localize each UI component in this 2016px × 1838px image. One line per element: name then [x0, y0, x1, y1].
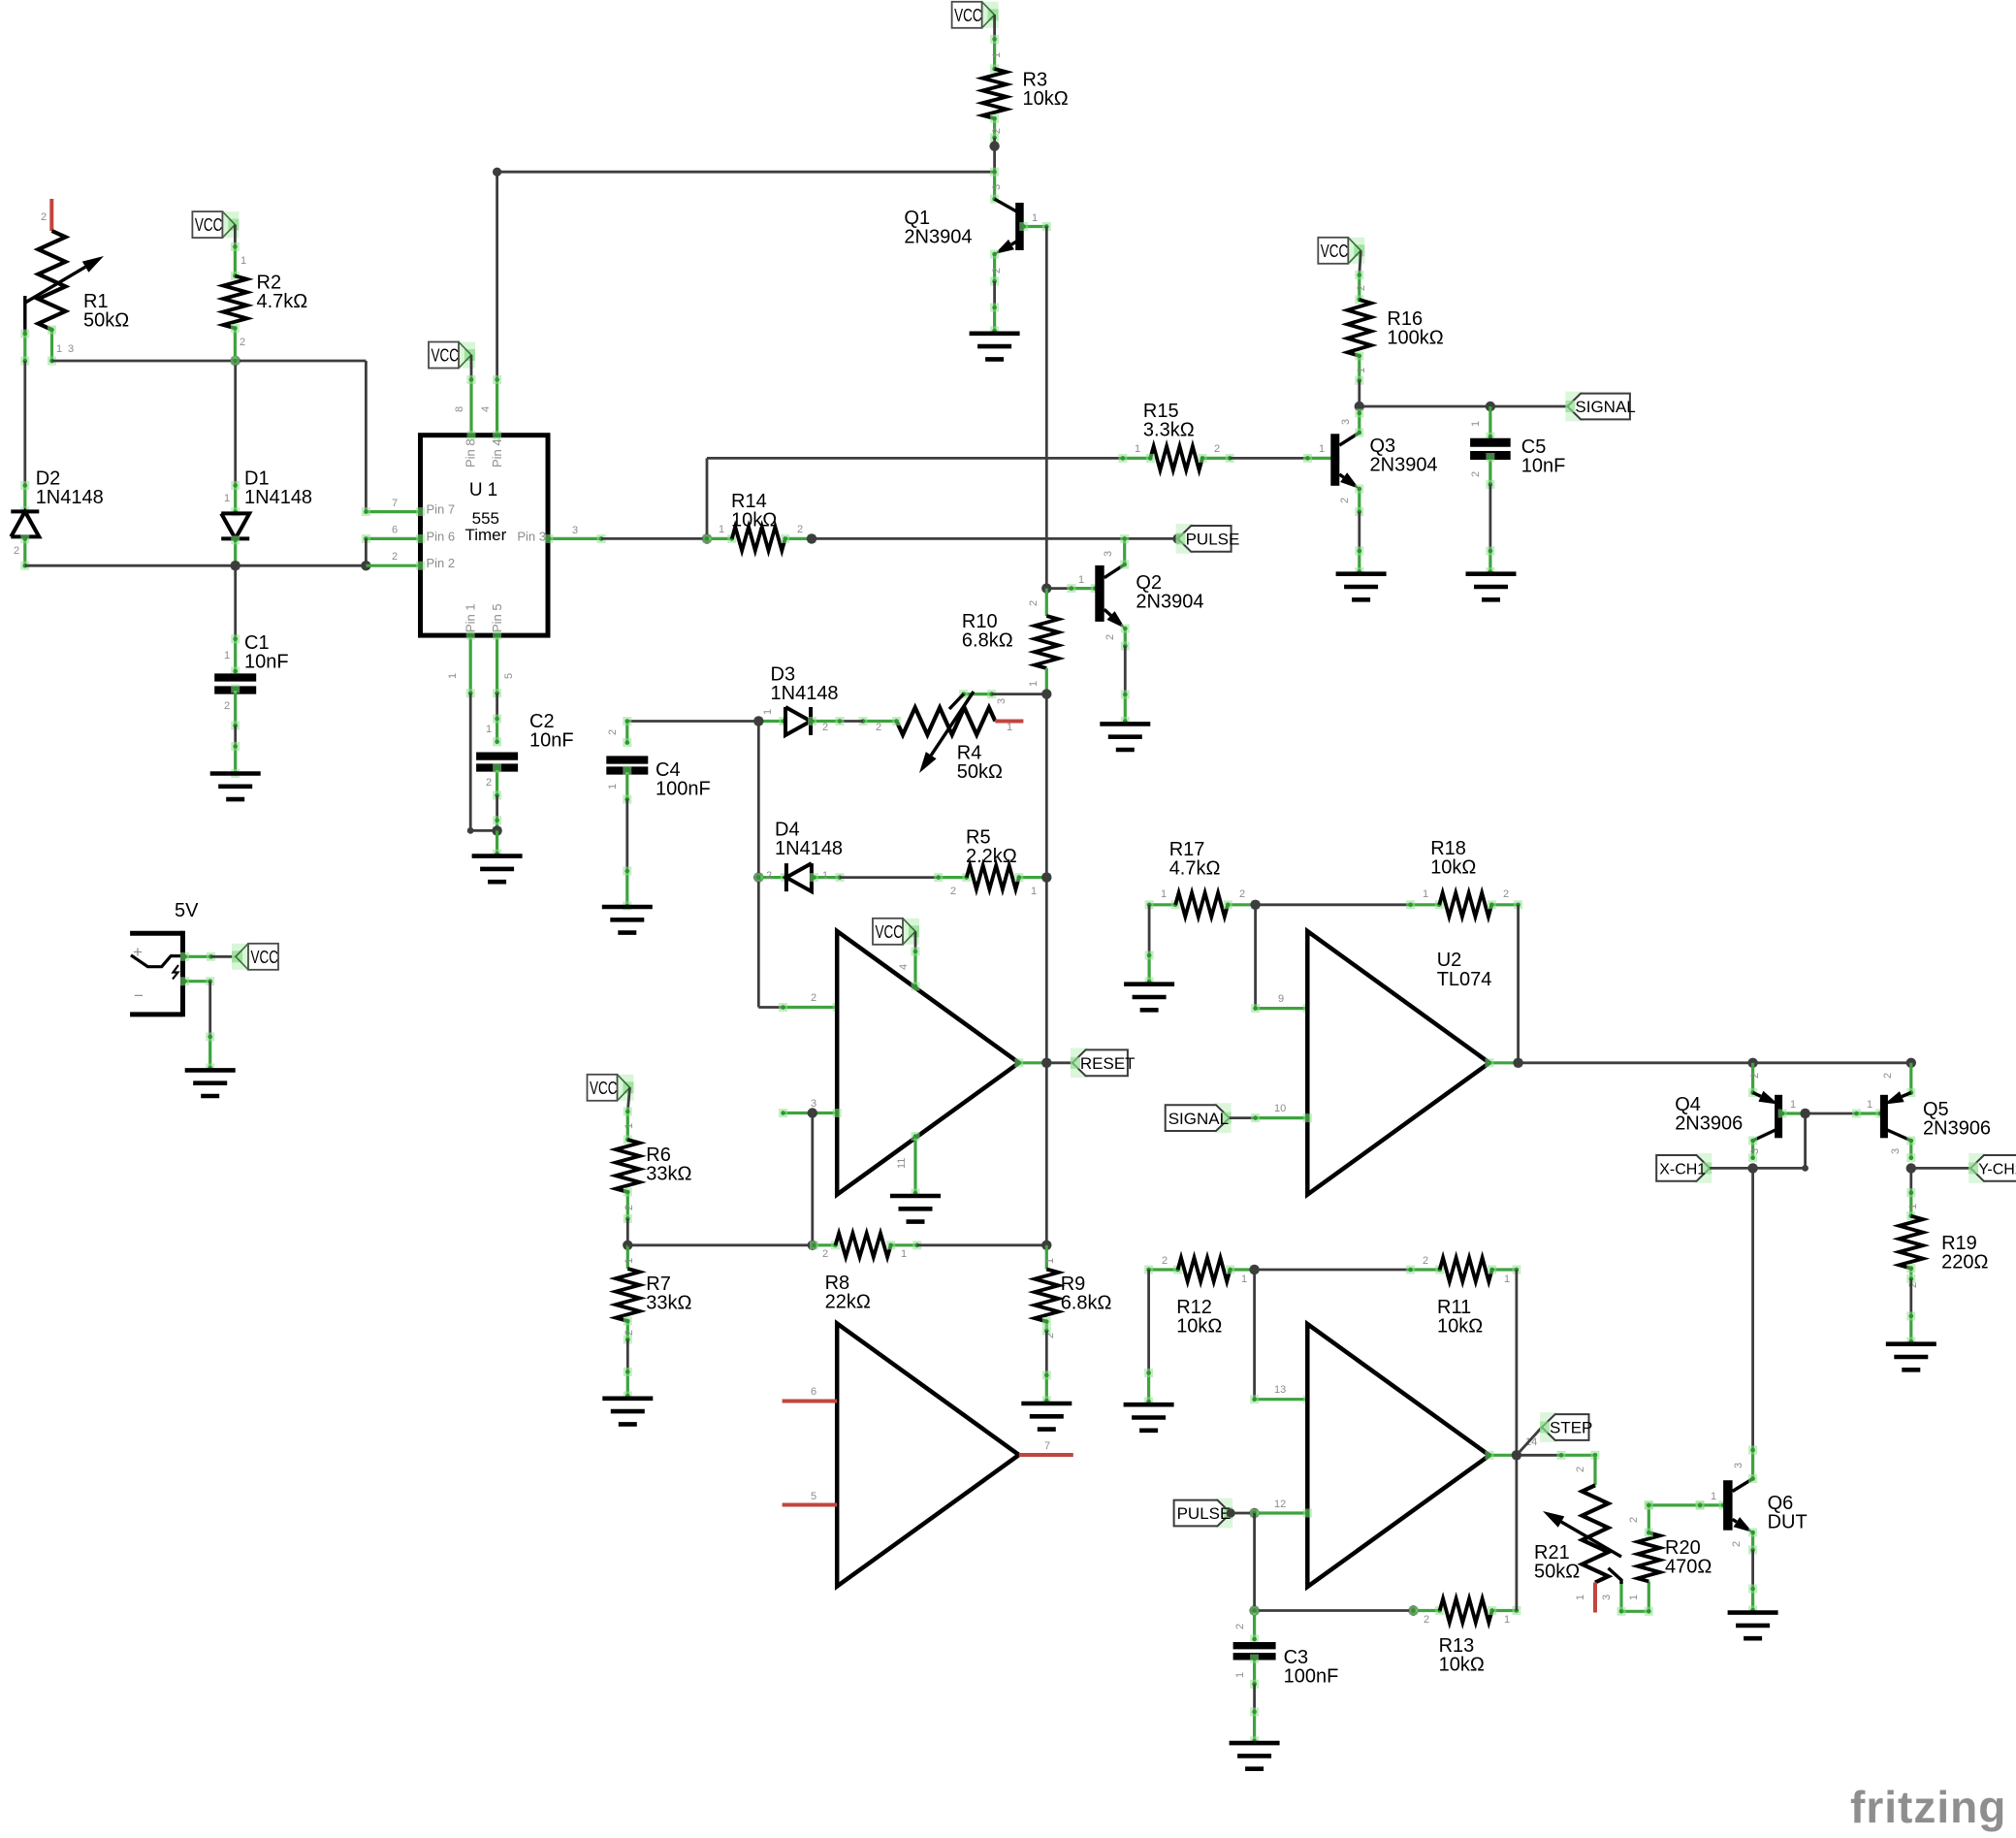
svg-text:1: 1 [1790, 1099, 1796, 1111]
svg-text:2: 2 [766, 870, 772, 882]
svg-text:1: 1 [719, 524, 724, 535]
svg-text:U2: U2 [1437, 950, 1462, 971]
svg-text:1: 1 [1907, 1204, 1919, 1209]
svg-text:Pin 2: Pin 2 [427, 556, 456, 570]
svg-text:TL074: TL074 [1437, 969, 1492, 990]
svg-text:1N4148: 1N4148 [775, 838, 843, 859]
svg-text:1: 1 [1234, 1672, 1246, 1678]
svg-text:470Ω: 470Ω [1665, 1557, 1712, 1578]
svg-text:2: 2 [1339, 498, 1351, 503]
svg-text:Pin 6: Pin 6 [427, 529, 456, 543]
svg-text:1: 1 [1031, 886, 1037, 897]
svg-text:12: 12 [1274, 1499, 1286, 1510]
svg-text:Y-CH2: Y-CH2 [1978, 1162, 2016, 1178]
svg-text:5V: 5V [175, 900, 199, 921]
svg-text:2: 2 [797, 524, 803, 535]
svg-text:2: 2 [1731, 1541, 1743, 1547]
svg-text:100nF: 100nF [1284, 1666, 1339, 1688]
svg-text:1: 1 [1628, 1595, 1640, 1600]
svg-text:10kΩ: 10kΩ [1023, 88, 1069, 110]
svg-text:2: 2 [1907, 1282, 1919, 1288]
svg-text:1N4148: 1N4148 [244, 487, 312, 508]
svg-text:1: 1 [1711, 1491, 1716, 1502]
svg-text:10kΩ: 10kΩ [731, 510, 777, 532]
svg-text:220Ω: 220Ω [1941, 1252, 1988, 1274]
svg-text:6: 6 [392, 525, 398, 536]
svg-text:2: 2 [1162, 1255, 1168, 1267]
svg-text:13: 13 [1274, 1384, 1286, 1396]
svg-text:SIGNAL: SIGNAL [1575, 398, 1635, 416]
svg-text:3: 3 [1733, 1463, 1744, 1468]
svg-text:VCC: VCC [432, 345, 460, 366]
svg-text:1: 1 [624, 1258, 635, 1264]
svg-text:RESET: RESET [1080, 1054, 1136, 1073]
svg-text:1: 1 [1241, 1274, 1247, 1285]
svg-text:3: 3 [572, 525, 578, 536]
svg-text:2: 2 [624, 1330, 635, 1336]
svg-text:2: 2 [950, 886, 956, 897]
svg-text:7: 7 [392, 498, 398, 509]
svg-text:2: 2 [1882, 1073, 1894, 1079]
svg-text:10: 10 [1274, 1103, 1286, 1114]
svg-text:2: 2 [991, 128, 1003, 134]
svg-text:1: 1 [1423, 888, 1428, 900]
svg-text:1: 1 [56, 343, 62, 355]
svg-text:STEP: STEP [1550, 1419, 1592, 1437]
svg-text:1: 1 [1575, 1595, 1586, 1600]
svg-text:3: 3 [1890, 1148, 1902, 1154]
svg-text:2: 2 [1104, 634, 1116, 640]
svg-text:1: 1 [1028, 681, 1040, 687]
svg-text:100nF: 100nF [656, 779, 711, 800]
svg-text:Pin 7: Pin 7 [427, 502, 456, 517]
svg-text:1: 1 [1007, 722, 1012, 733]
svg-text:1: 1 [991, 52, 1003, 58]
svg-text:VCC: VCC [251, 947, 279, 967]
svg-text:2.2kΩ: 2.2kΩ [966, 846, 1017, 867]
svg-text:2: 2 [1423, 1255, 1428, 1267]
svg-text:1: 1 [1470, 421, 1482, 427]
svg-text:3: 3 [1103, 551, 1114, 557]
svg-text:Pin 4: Pin 4 [490, 438, 504, 468]
svg-text:2: 2 [1028, 600, 1040, 606]
svg-text:PULSE: PULSE [1186, 531, 1240, 549]
svg-text:1: 1 [1135, 443, 1140, 455]
svg-text:2: 2 [240, 337, 245, 348]
svg-text:1: 1 [240, 255, 246, 267]
svg-text:1: 1 [447, 673, 459, 679]
svg-text:50kΩ: 50kΩ [957, 761, 1003, 783]
svg-text:2: 2 [1239, 888, 1245, 900]
svg-text:1: 1 [1044, 1258, 1056, 1264]
svg-text:22kΩ: 22kΩ [825, 1292, 871, 1313]
svg-text:11: 11 [896, 1158, 908, 1169]
svg-text:10kΩ: 10kΩ [1437, 1316, 1483, 1338]
svg-text:VCC: VCC [195, 214, 223, 235]
svg-text:2N3906: 2N3906 [1923, 1118, 1991, 1140]
svg-text:10kΩ: 10kΩ [1430, 857, 1476, 879]
svg-text:8: 8 [454, 406, 465, 412]
svg-text:6.8kΩ: 6.8kΩ [962, 630, 1013, 652]
svg-text:2: 2 [224, 700, 230, 712]
svg-text:7: 7 [1044, 1440, 1050, 1452]
svg-text:1: 1 [224, 650, 230, 661]
svg-text:6.8kΩ: 6.8kΩ [1061, 1293, 1112, 1314]
svg-text:1: 1 [1032, 212, 1038, 224]
svg-text:2: 2 [991, 268, 1003, 274]
svg-text:10kΩ: 10kΩ [1176, 1316, 1222, 1338]
svg-text:1: 1 [1319, 443, 1325, 455]
svg-text:2: 2 [1424, 1614, 1429, 1626]
svg-text:2: 2 [392, 551, 398, 563]
svg-text:2: 2 [486, 777, 492, 789]
svg-text:Timer: Timer [464, 526, 506, 544]
svg-text:1: 1 [1504, 1614, 1510, 1626]
svg-text:2: 2 [822, 1248, 828, 1260]
svg-text:VCC: VCC [590, 1078, 618, 1098]
svg-text:3: 3 [996, 698, 1008, 704]
svg-text:3: 3 [68, 343, 74, 355]
svg-text:Pin 3: Pin 3 [517, 530, 546, 544]
svg-text:5: 5 [503, 673, 515, 679]
svg-text:1: 1 [1356, 368, 1367, 373]
svg-text:10nF: 10nF [529, 730, 574, 752]
svg-text:2: 2 [607, 729, 619, 735]
svg-text:10kΩ: 10kΩ [1439, 1655, 1485, 1676]
svg-text:1: 1 [1504, 1274, 1510, 1285]
svg-text:DUT: DUT [1768, 1512, 1808, 1533]
svg-text:3: 3 [1340, 419, 1352, 425]
svg-text:2N3904: 2N3904 [904, 227, 972, 248]
svg-text:1N4148: 1N4148 [771, 683, 839, 704]
svg-text:10nF: 10nF [244, 652, 289, 673]
svg-text:2: 2 [1749, 1073, 1761, 1079]
svg-text:33kΩ: 33kΩ [646, 1164, 691, 1185]
svg-text:3: 3 [991, 184, 1003, 190]
svg-text:4: 4 [480, 406, 492, 412]
svg-text:2: 2 [1356, 285, 1367, 291]
svg-text:4.7kΩ: 4.7kΩ [257, 291, 308, 312]
svg-text:2: 2 [1503, 888, 1509, 900]
svg-text:2N3904: 2N3904 [1136, 592, 1203, 613]
svg-text:1: 1 [607, 784, 619, 790]
svg-text:1: 1 [1161, 888, 1167, 900]
svg-text:100kΩ: 100kΩ [1387, 328, 1443, 349]
svg-text:2: 2 [811, 992, 816, 1004]
svg-text:50kΩ: 50kΩ [83, 309, 129, 331]
svg-text:4.7kΩ: 4.7kΩ [1169, 858, 1221, 880]
svg-text:VCC: VCC [954, 5, 982, 25]
svg-text:1: 1 [762, 709, 774, 715]
svg-text:2: 2 [41, 211, 47, 223]
svg-text:PULSE: PULSE [1177, 1504, 1232, 1523]
svg-text:−: − [134, 986, 144, 1005]
svg-text:1N4148: 1N4148 [36, 487, 104, 508]
svg-text:10nF: 10nF [1521, 456, 1566, 477]
svg-text:1: 1 [224, 493, 230, 504]
svg-text:1: 1 [624, 1123, 635, 1129]
svg-text:1: 1 [1867, 1099, 1872, 1111]
svg-text:3: 3 [811, 1098, 816, 1110]
svg-text:2: 2 [1234, 1624, 1246, 1629]
svg-text:Pin 8: Pin 8 [464, 438, 478, 468]
svg-text:1: 1 [1078, 574, 1084, 586]
svg-text:4: 4 [898, 964, 910, 970]
svg-text:2: 2 [822, 722, 828, 733]
svg-text:2: 2 [624, 1205, 635, 1210]
svg-text:2N3904: 2N3904 [1370, 455, 1438, 476]
svg-text:2: 2 [14, 545, 19, 557]
svg-text:Pin 5: Pin 5 [490, 603, 504, 632]
svg-text:VCC: VCC [1321, 241, 1349, 261]
svg-text:1: 1 [486, 724, 492, 735]
svg-text:2: 2 [1575, 1467, 1586, 1472]
svg-text:2N3906: 2N3906 [1675, 1113, 1743, 1135]
svg-text:1: 1 [901, 1248, 907, 1260]
svg-text:X-CH1: X-CH1 [1659, 1162, 1706, 1178]
svg-text:3: 3 [1749, 1148, 1761, 1154]
svg-text:2: 2 [1214, 443, 1220, 455]
svg-text:VCC: VCC [876, 921, 904, 942]
svg-text:6: 6 [811, 1386, 816, 1398]
svg-text:SIGNAL: SIGNAL [1168, 1110, 1229, 1128]
svg-text:fritzing: fritzing [1850, 1782, 2006, 1832]
svg-text:33kΩ: 33kΩ [646, 1293, 691, 1314]
svg-text:2: 2 [876, 722, 881, 733]
svg-text:2: 2 [1628, 1517, 1640, 1523]
svg-text:Pin 1: Pin 1 [464, 603, 478, 632]
svg-text:3.3kΩ: 3.3kΩ [1143, 420, 1195, 441]
svg-text:9: 9 [1278, 993, 1284, 1005]
svg-text:5: 5 [811, 1491, 816, 1502]
svg-text:3: 3 [1601, 1595, 1613, 1600]
svg-text:50kΩ: 50kΩ [1534, 1562, 1580, 1583]
svg-text:2: 2 [1470, 471, 1482, 477]
svg-text:1: 1 [822, 870, 828, 882]
svg-text:U1: U1 [469, 480, 502, 500]
